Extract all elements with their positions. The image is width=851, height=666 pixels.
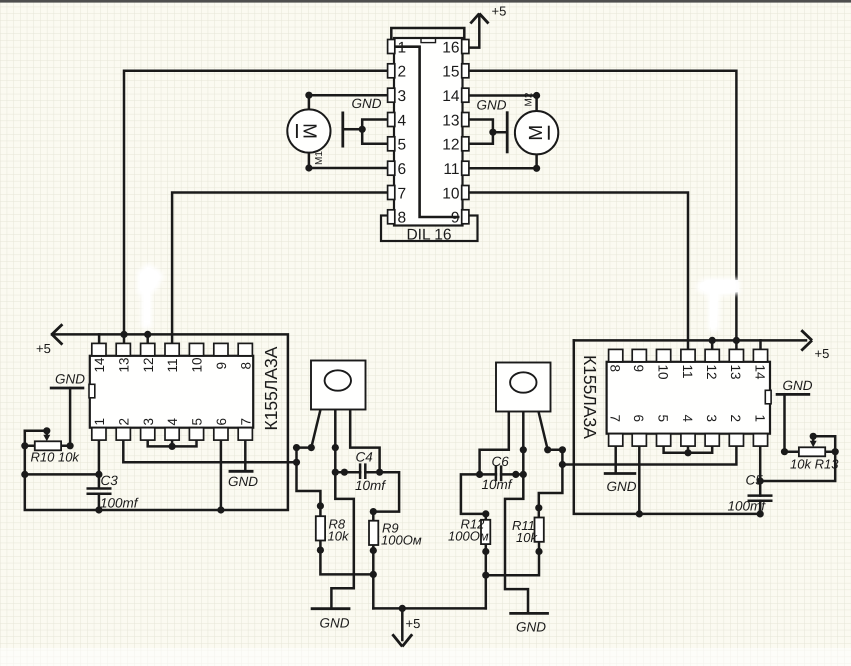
DIP inner outline [395,47,460,217]
svg-text:+5: +5 [815,346,830,361]
svg-text:9: 9 [214,362,229,370]
node: R9 top [370,508,377,515]
svg-text:13: 13 [116,357,131,372]
svg-text:10mf: 10mf [355,478,386,493]
svg-text:14: 14 [752,365,767,381]
node: Q1 left leg A [293,444,300,451]
resistor R8 [316,516,325,540]
node: R8 bottom [317,547,324,554]
node: IC1 pin6 on rail [217,506,224,513]
node: motor M2 top [533,92,540,99]
wire: DIP pin1 and pin16 to +5 top loop [391,28,464,47]
DIL 16 label frame [381,216,478,242]
node: C4 left lead b [341,469,348,476]
node: R11-R12 link [482,572,489,579]
svg-text:16: 16 [442,39,459,56]
IC1 body (K155LA3A left) [90,356,253,428]
capacitor C3 [87,489,112,494]
wire: +5 rail stub to IC1 pin12 [146,334,149,343]
node: Q2 right leg B [544,446,551,453]
node: R12 top [482,510,489,517]
svg-text:15: 15 [442,64,459,81]
node: IC2 pins3-5 tie [684,449,691,456]
IC1 pin numbers bottom [92,418,253,426]
svg-text:1: 1 [92,418,107,426]
wire: DIP pin13 / pin12 to right GND symbol [469,120,493,144]
white cursor artifact left [137,263,164,330]
node: R11 top [535,504,542,511]
node: R9 lead [370,547,377,554]
IC2 pins top row (8-14) [609,349,768,361]
svg-text:GND: GND [55,372,85,387]
wire: DIP pin4 / pin5 to left GND symbol [362,120,388,144]
IC2 side marker [765,390,771,404]
wire: Q2 base column down to R11 [539,450,563,518]
node: R10 right lead / GND [67,442,74,449]
svg-text:7: 7 [398,185,407,202]
wire: IC1 pin6 to bottom rail [220,440,223,510]
svg-text:6: 6 [398,161,407,178]
svg-text:10k R13: 10k R13 [790,457,839,472]
svg-text:12: 12 [704,365,719,380]
+5 arrow left [52,324,63,344]
node: IC1 pin2 wire / base column [293,459,300,466]
svg-text:4: 4 [165,418,180,426]
wire: IC2 pins 3,4,5 tie [664,446,713,453]
DIP pins left (1-8) [388,40,395,224]
svg-text:GND: GND [228,474,258,489]
wire: C3 bottom to ground rail [98,494,101,510]
wire: Q1 left leg diagonal [297,410,321,448]
wire: DIP pin10 to IC2 pin11 [469,193,688,350]
potentiometer R13 [799,447,825,456]
wire: DIP pin3 to motor M1 top [309,95,388,109]
IC2 pin numbers top [608,365,768,381]
node: Q1 left leg B [308,444,315,451]
wire: Q2 middle leg down to right GND [505,412,528,614]
wire: C4 right lead down to R9 [365,472,399,511]
svg-text:2: 2 [398,64,407,81]
svg-text:GND: GND [320,616,350,631]
wire: C6 left lead down to R12 [461,474,496,514]
node: right GND link [489,129,496,136]
wire: +5 bottom arrow stem [401,608,404,640]
node: Q2 middle leg C [520,446,527,453]
svg-text:M2: M2 [524,92,535,106]
wire: IC1 pins 3,4,5 tie [148,440,197,446]
svg-text:+5: +5 [406,616,421,631]
node: IC2 pin6 on rail [636,510,643,517]
wire: +5 bottom rail [373,607,486,610]
wire: R11 bottom to R12 column [486,542,539,575]
node: R8-R9 link [370,571,377,578]
svg-text:C6: C6 [492,454,510,469]
ground right of IC2 [776,393,811,396]
wire: +5 stub to IC2 pin12 [711,340,714,349]
ground under IC1 pin7 [229,470,254,473]
DIP notch [421,38,436,42]
node: Q1 middle leg C [332,444,339,451]
IC1 side marker [89,384,95,398]
svg-text:2: 2 [728,415,743,423]
wire: IC2 pin2 to Q2 base column [562,446,736,465]
svg-text:+5: +5 [492,4,507,19]
wire: IC1 pin1 to C3 top [98,440,101,488]
ground left of IC1 [50,387,85,390]
DIP pin numbers 1-8 [398,39,407,226]
svg-text:К155ЛА3А: К155ЛА3А [580,355,600,439]
node: C3 bottom on rail [95,506,102,513]
wire: Q1 base column down to R8 [297,448,321,517]
capacitor C5 [748,496,773,501]
node: C3 top junction [95,471,102,478]
svg-text:1: 1 [398,39,407,56]
node: left GND link [359,126,366,133]
svg-text:100Ом: 100Ом [381,533,422,548]
ground right of DIP [506,111,509,153]
svg-text:14: 14 [92,357,107,373]
+5 arrow right [801,330,812,350]
transistor Q2 [496,363,551,412]
svg-text:C5: C5 [746,473,764,488]
node: R11 bottom [535,548,542,555]
IC1 pins bottom row (1-7) [92,428,253,440]
wire: Q2 left leg to C6 left lead [480,412,509,475]
wire: left GND symbol to R10 right lead [69,388,72,446]
node: R12 lead [482,548,489,555]
svg-text:5: 5 [655,415,670,423]
node: Q2 right leg A [559,446,566,453]
ground left of DIP [341,112,344,148]
wire: R10 leads [25,445,70,448]
wire: IC1 pin2 to Q1 base column [123,440,296,462]
svg-text:GND: GND [352,96,382,111]
transistor Q1 [311,361,366,410]
node: motor M1 bottom [305,164,312,171]
IC2 body (K155LA3A right) [607,362,770,434]
node: motor M1 top [305,92,312,99]
IC2 pin numbers bottom [608,415,768,423]
svg-text:10: 10 [442,185,460,202]
wire: DIP pin2 to IC1 pin13 (long left vertical) [124,71,388,344]
svg-text:C4: C4 [356,450,373,465]
node: R8 top [317,502,324,509]
wire: R12 bottom to +5 bottom rail [485,544,488,608]
motor M1 [287,109,330,152]
node: C5 top junction [757,477,764,484]
node: C6 right lead b [512,471,519,478]
wire: DIP pin11 to motor M2 bottom [469,155,537,169]
DIP pins right (16-9) [462,40,469,224]
capacitor C6 [496,465,501,481]
wire: Q2 right leg diagonal [539,412,563,450]
capacitor C4 [360,463,365,479]
wire: DIP pin15 to IC2 pin13 (long right vertical) [469,71,737,350]
wire: R13 wiper link [760,436,835,481]
wire: IC2 pin7 to GND bar [614,446,617,473]
node: IC1 pins3-5 tie [169,443,176,450]
wire: C3 top junction to left rail [25,473,99,476]
node: right +5 rail / IC2 pin12 [709,337,716,344]
svg-text:M: M [526,125,547,141]
ground below Q2 [509,612,549,615]
svg-text:10: 10 [655,365,670,380]
svg-text:GND: GND [477,98,507,113]
wire: IC2 pin1 to C5 top [759,446,762,496]
svg-text:DIL 16: DIL 16 [406,227,451,244]
resistor R11 [535,518,544,542]
wire: DIP pin16 to +5 arrow [469,15,480,48]
svg-text:5: 5 [190,418,205,426]
wire: IC1 pin7 to GND bar [244,440,247,471]
svg-text:11: 11 [165,358,180,372]
ground under IC2 pin7 [604,472,636,475]
node: R13 right lead [832,448,839,455]
svg-text:9: 9 [451,210,460,227]
wire: DIP pin6 to motor M1 bottom [309,153,388,168]
wire: C6 right lead [501,473,523,476]
svg-text:10: 10 [190,357,205,372]
node: R10 wiper [43,427,50,434]
wire: right GND symbol to R13 left lead [783,394,786,451]
node: left rail / C3 link [21,471,28,478]
svg-text:10k: 10k [516,530,538,545]
svg-text:GND: GND [516,620,546,635]
svg-text:GND: GND [783,378,813,393]
svg-text:9: 9 [631,365,646,373]
+5 arrow top [470,14,488,24]
svg-text:M: M [299,123,320,139]
resistor R9 [369,521,378,545]
DIP pin numbers 16-9 [442,39,460,226]
wire: right loop around IC2 [574,340,760,514]
wire: Q1 right leg to C4 right lead [350,410,379,473]
ground below Q1 [311,607,351,610]
+5 bottom arrow [392,634,412,646]
wire: C4 left lead [335,471,360,474]
wire: DIP pin7 to IC1 pin11 [172,193,388,344]
svg-text:3: 3 [141,418,156,426]
wire: R9 top lead [372,512,375,521]
svg-text:3: 3 [704,415,719,423]
svg-text:GND: GND [607,479,637,494]
wire: +5 stub to IC2 pin14 [759,340,762,349]
svg-text:M1: M1 [314,151,325,165]
wire: C5 bottom to rail [759,501,762,514]
motor M2 [515,111,558,154]
node: +5/IC1 pin13/DIP pin2 [120,331,127,338]
node: IC2 pin2 wire / base column [559,461,566,468]
DIP chip U1 body [394,38,463,226]
svg-text:11: 11 [680,365,695,379]
white cursor artifact right [697,278,740,333]
svg-text:4: 4 [398,112,407,129]
svg-text:К155ЛА3А: К155ЛА3А [261,346,281,430]
wire: IC2 pin6 to bottom rail [638,446,641,514]
svg-text:10mf: 10mf [482,477,513,492]
IC1 pins top row (14-8) [92,343,253,355]
svg-text:11: 11 [443,161,459,178]
svg-text:5: 5 [398,137,407,154]
wire: R9 bottom to +5 bottom rail [372,545,375,608]
node: R13 left lead / GND [781,448,788,455]
svg-text:12: 12 [442,137,459,154]
node: motor M2 bottom [533,165,540,172]
svg-text:13: 13 [728,365,743,380]
node: C6 right lead a [520,471,527,478]
wire: R10 wiper link [25,431,47,435]
svg-text:8: 8 [238,362,253,370]
wire: R12 top lead [485,514,488,520]
node: C4 right lead / Q1 right leg [376,469,383,476]
svg-text:100Ом: 100Ом [448,529,489,544]
svg-text:6: 6 [631,415,646,423]
svg-text:2: 2 [116,418,131,426]
svg-text:+5: +5 [36,341,51,356]
wire: +5 rail stub to IC1 pin14 [98,334,101,343]
svg-text:12: 12 [141,357,156,372]
svg-text:C3: C3 [101,473,119,488]
wire: R13 leads [785,450,836,453]
svg-text:4: 4 [680,415,695,423]
wire: DIP pin14 to motor M2 top [469,96,537,112]
node: C4 left lead a [332,469,339,476]
wire: right +5 rail [574,339,806,342]
svg-text:10k: 10k [328,529,350,544]
node: R10 left lead [21,442,28,449]
svg-text:100mf: 100mf [728,499,767,514]
node: C6 left lead / Q2 left leg [476,471,483,478]
svg-text:3: 3 [398,88,407,105]
node: C5 bottom on rail [757,510,764,517]
node: DIP15 wire / right +5 rail [733,337,740,344]
svg-text:13: 13 [442,112,459,129]
svg-text:7: 7 [238,418,253,426]
node: +5 bottom arrow [399,605,406,612]
IC1 pin numbers top [92,357,253,373]
svg-text:6: 6 [214,418,229,426]
svg-text:7: 7 [608,415,623,423]
wire: R8 bottom to R9 column [320,541,373,575]
node: +5/IC1 pin12 [144,331,151,338]
top dark border [0,0,851,3]
IC2 pins bottom row (7-1) [609,434,768,446]
wire: left +5 rail loop around IC1 [25,334,288,510]
wire: Q1 middle leg down to left GND [331,410,353,609]
svg-text:14: 14 [442,88,460,105]
svg-text:100mf: 100mf [100,496,139,511]
svg-text:8: 8 [398,210,407,227]
svg-text:8: 8 [608,365,623,373]
svg-text:1: 1 [752,415,767,423]
resistor R12 [481,520,490,544]
svg-text:R10 10k: R10 10k [31,450,81,465]
node: R13 wiper [810,433,817,440]
potentiometer R10 [35,441,61,450]
